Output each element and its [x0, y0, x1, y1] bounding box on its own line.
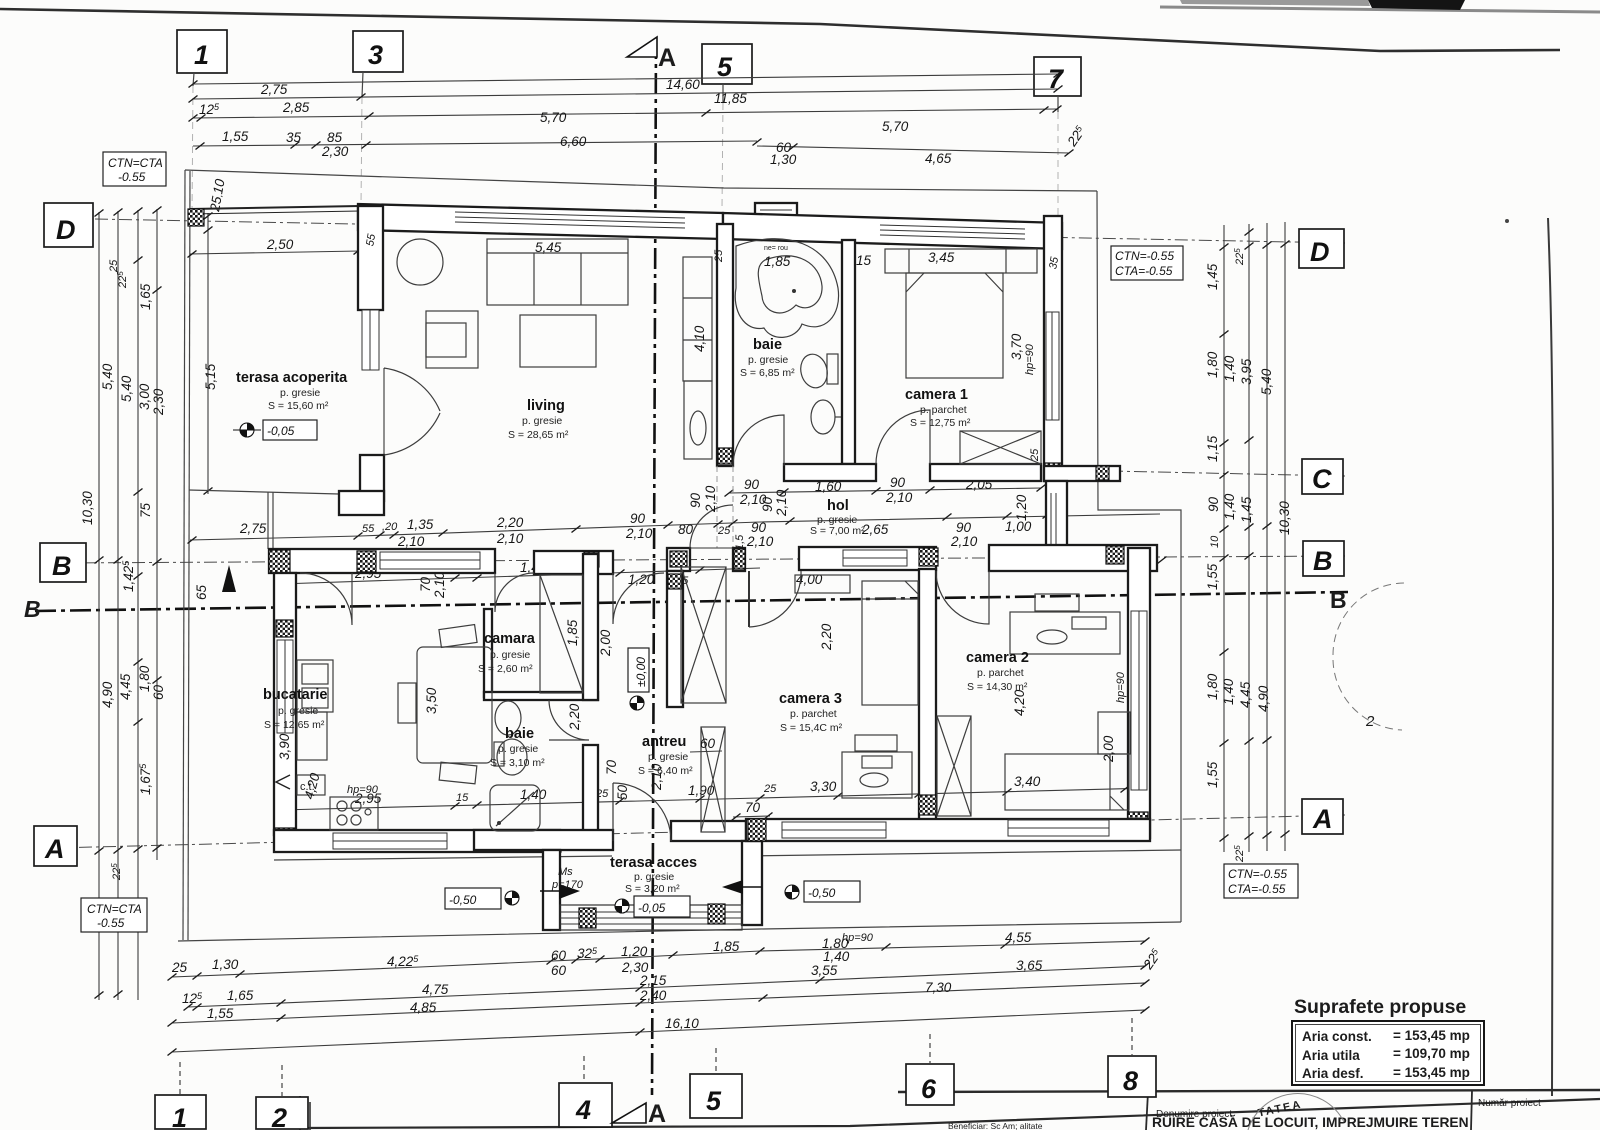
- svg-text:3,65: 3,65: [1016, 958, 1043, 973]
- page right edge line: [1548, 218, 1553, 1096]
- svg-text:S = 6,40 m²: S = 6,40 m²: [638, 765, 693, 777]
- svg-text:1: 1: [194, 40, 209, 70]
- svg-text:25: 25: [171, 960, 188, 975]
- svg-text:5,40: 5,40: [119, 375, 134, 402]
- svg-text:4,45: 4,45: [1238, 681, 1253, 708]
- baie toilet: [797, 351, 830, 390]
- window in north wall living: [455, 212, 685, 218]
- svg-text:C: C: [1312, 464, 1332, 494]
- svg-text:2: 2: [1365, 713, 1375, 730]
- elevation marker left -0,50: [445, 888, 501, 909]
- svg-text:3,45: 3,45: [928, 250, 955, 265]
- top chain row3 line 12.5 / 2,85 / 5,70 / 5,70 / 22.5: [193, 109, 1057, 118]
- top chain row2 line 2,75 / 11,85: [193, 89, 1058, 99]
- section line A-A vertical: [652, 38, 656, 1095]
- south window camera3: [782, 822, 886, 838]
- camera2 door: [936, 571, 989, 624]
- column hatch living NE / baie W: [718, 226, 733, 241]
- svg-text:1,45: 1,45: [1239, 496, 1254, 523]
- camera2 wardrobe X: [937, 716, 971, 816]
- svg-text:90: 90: [630, 511, 646, 526]
- svg-text:10,30: 10,30: [80, 491, 95, 525]
- svg-text:= 153,45 mp: = 153,45 mp: [1393, 1028, 1470, 1043]
- svg-text:2,10: 2,10: [774, 489, 789, 517]
- svg-text:4,55: 4,55: [1005, 930, 1032, 945]
- door 80 living side: [690, 505, 733, 548]
- svg-text:D: D: [56, 215, 76, 245]
- bubble D right: [1299, 229, 1344, 268]
- svg-text:60: 60: [551, 963, 567, 978]
- svg-text:Aria desf.: Aria desf.: [1302, 1066, 1364, 1081]
- svg-text:Suprafete propuse: Suprafete propuse: [1294, 996, 1466, 1018]
- svg-text:3,30: 3,30: [810, 779, 837, 794]
- svg-text:living: living: [527, 398, 565, 414]
- antreu west wall lower: [583, 745, 598, 835]
- svg-text:7,30: 7,30: [925, 980, 952, 995]
- svg-text:1,30: 1,30: [212, 957, 239, 972]
- svg-text:5,70: 5,70: [882, 119, 909, 134]
- svg-text:ne= rou: ne= rou: [764, 245, 788, 252]
- svg-text:1,85: 1,85: [713, 939, 740, 954]
- svg-text:±0,00: ±0,00: [634, 657, 648, 687]
- svg-text:A: A: [1312, 804, 1333, 834]
- bottom chain row1: [172, 941, 1145, 977]
- svg-text:16,10: 16,10: [665, 1016, 699, 1031]
- bubble 1 bottom: [155, 1095, 206, 1129]
- svg-text:90: 90: [760, 496, 775, 512]
- svg-text:5,15: 5,15: [203, 363, 218, 390]
- antreu entry door: [613, 573, 664, 624]
- camara shelf: [540, 575, 583, 693]
- bubble D left: [44, 203, 93, 247]
- svg-text:-0.55: -0.55: [118, 170, 146, 184]
- eave line below bucatarie: [274, 856, 612, 860]
- bottom-left bracket mark: [300, 1096, 310, 1130]
- svg-text:CTN=CTA: CTN=CTA: [108, 156, 163, 170]
- svg-text:2,40: 2,40: [639, 988, 667, 1003]
- svg-text:RUIRE CASĂ DE LOCUIT, IMPREJMU: RUIRE CASĂ DE LOCUIT, IMPREJMUIRE TEREN: [1152, 1114, 1469, 1130]
- svg-text:p. parchet: p. parchet: [977, 667, 1024, 679]
- elevation marker terasa: [240, 423, 254, 437]
- west wall living upper: [358, 206, 383, 310]
- svg-text:1,85: 1,85: [764, 254, 791, 269]
- bucatarie table: [417, 647, 492, 763]
- svg-text:2,00: 2,00: [1101, 735, 1116, 763]
- NE jog wall horizontal: [1044, 466, 1120, 481]
- svg-text:4: 4: [575, 1095, 591, 1125]
- svg-text:1: 1: [172, 1103, 187, 1130]
- svg-text:antreu: antreu: [642, 734, 686, 750]
- top chain row4: [193, 141, 757, 146]
- camera1 east wall: [1044, 216, 1062, 481]
- svg-text:Aria utila: Aria utila: [1302, 1048, 1360, 1063]
- section line B-B horizontal: [35, 592, 1348, 611]
- wall stub living SW: [339, 491, 384, 515]
- grid axis C dashed right: [1062, 470, 1345, 476]
- bucatarie south wall: [274, 830, 560, 852]
- svg-text:A: A: [658, 44, 676, 72]
- bubble A right: [1302, 799, 1343, 834]
- svg-text:baie: baie: [505, 726, 534, 742]
- column hatch bucatarie SW: [275, 828, 295, 852]
- svg-text:2,10: 2,10: [432, 571, 447, 599]
- living-hol opening dashed: [716, 466, 718, 548]
- svg-text:25: 25: [763, 783, 777, 795]
- north wall baie-camera1: [723, 213, 1062, 249]
- svg-text:p. parchet: p. parchet: [920, 404, 967, 416]
- svg-text:S = 2,60 m²: S = 2,60 m²: [478, 663, 533, 675]
- svg-text:2,30: 2,30: [321, 144, 349, 159]
- svg-text:D: D: [1310, 237, 1330, 267]
- svg-text:CTN=-0.55: CTN=-0.55: [1115, 249, 1174, 263]
- svg-text:2,30: 2,30: [151, 388, 166, 416]
- svg-text:1,40: 1,40: [1222, 493, 1237, 520]
- svg-text:80: 80: [678, 522, 694, 537]
- svg-text:1,55: 1,55: [1205, 761, 1220, 788]
- baie corner tub: [735, 239, 838, 338]
- svg-text:1,65: 1,65: [138, 283, 153, 310]
- svg-text:1,55: 1,55: [222, 129, 249, 144]
- svg-text:4,90: 4,90: [1256, 685, 1271, 712]
- baie top door: [733, 415, 784, 466]
- camera3 desk: [842, 752, 912, 798]
- svg-text:S = 12,75 m²: S = 12,75 m²: [910, 417, 971, 429]
- bubble B right: [1303, 541, 1344, 576]
- baie low south wall piece: [474, 830, 613, 850]
- NE jog wall vertical: [1046, 481, 1067, 551]
- svg-text:CTN=CTA: CTN=CTA: [87, 902, 142, 916]
- eave outline top: [185, 170, 1097, 191]
- svg-text:S = 3,10 m²: S = 3,10 m²: [490, 757, 545, 769]
- svg-text:4,45: 4,45: [118, 673, 133, 700]
- bucatarie sink unit: [297, 660, 333, 712]
- svg-text:S = 7,00 m²: S = 7,00 m²: [810, 525, 865, 537]
- svg-text:,20: ,20: [382, 521, 398, 533]
- svg-text:CTN=-0.55: CTN=-0.55: [1228, 867, 1287, 881]
- svg-text:1,40: 1,40: [520, 787, 547, 802]
- baie sink: [811, 400, 835, 434]
- camera2 east wall: [1128, 548, 1150, 838]
- svg-text:terasa acces: terasa acces: [610, 855, 697, 871]
- svg-text:11,85: 11,85: [714, 91, 747, 106]
- svg-text:3,40: 3,40: [1014, 774, 1041, 789]
- svg-text:p. gresie: p. gresie: [490, 649, 530, 661]
- bubble 4 bottom: [559, 1083, 612, 1127]
- svg-text:1,80: 1,80: [137, 665, 152, 692]
- svg-text:6,60: 6,60: [560, 134, 587, 149]
- svg-text:Număr proiect: Număr proiect: [1478, 1098, 1541, 1109]
- svg-text:p. gresie: p. gresie: [522, 415, 562, 427]
- svg-text:1,20: 1,20: [621, 944, 648, 959]
- elevation marker antreu 0.00: [630, 696, 644, 710]
- svg-text:75: 75: [138, 502, 153, 518]
- svg-text:3,95: 3,95: [1239, 358, 1254, 385]
- svg-text:5,40: 5,40: [1259, 368, 1274, 395]
- camera2 bed headboard: [1098, 712, 1130, 754]
- svg-text:1,15: 1,15: [1205, 435, 1220, 462]
- dim column 25,10 left of terasa: [207, 213, 209, 494]
- svg-text:p. gresie: p. gresie: [498, 743, 538, 755]
- svg-text:Ms: Ms: [558, 866, 573, 878]
- svg-text:S = 12,65 m²: S = 12,65 m²: [264, 719, 325, 731]
- svg-text:4,90: 4,90: [100, 681, 115, 708]
- svg-text:1,85: 1,85: [565, 619, 580, 646]
- left chain col lines: [98, 212, 100, 1000]
- dim 2,75 mid-left + interior chain under B wall: [190, 514, 1160, 540]
- svg-text:1,40: 1,40: [1222, 355, 1237, 382]
- svg-text:1,5: 1,5: [734, 534, 746, 550]
- svg-text:90: 90: [688, 492, 703, 508]
- terasa acces steps: [560, 905, 742, 930]
- antreu west wall upper: [583, 554, 598, 700]
- north wall living: [358, 204, 723, 239]
- svg-text:baie: baie: [753, 337, 782, 353]
- svg-text:2,00: 2,00: [598, 629, 613, 657]
- svg-text:1,45: 1,45: [1205, 263, 1220, 290]
- plot boundary left double line: [183, 170, 185, 940]
- bubble 1 top: [177, 30, 227, 73]
- page top edge line: [0, 9, 1560, 51]
- svg-text:60: 60: [551, 948, 567, 963]
- svg-text:4,10: 4,10: [692, 325, 707, 352]
- svg-text:65: 65: [194, 584, 209, 600]
- svg-text:2,10: 2,10: [703, 485, 718, 513]
- eave outline right upper: [1097, 191, 1181, 922]
- camera3 west wall: [667, 571, 683, 707]
- svg-text:8: 8: [1123, 1066, 1138, 1096]
- page top-right smudge band: [1160, 7, 1600, 12]
- camera3 bed: [862, 581, 918, 705]
- right chain col lines: [1223, 225, 1225, 852]
- title block horizontal line: [898, 1090, 1600, 1092]
- svg-text:p. gresie: p. gresie: [278, 705, 318, 717]
- access arrow right-pointing: [559, 884, 580, 899]
- baie low door: [549, 700, 589, 740]
- svg-text:1,40: 1,40: [823, 949, 850, 964]
- svg-text:70: 70: [745, 800, 761, 815]
- camara west wall: [484, 609, 492, 697]
- svg-text:1,30: 1,30: [770, 152, 797, 167]
- svg-text:90: 90: [1206, 496, 1221, 512]
- camera1 bed: [906, 273, 1003, 378]
- svg-text:14,60: 14,60: [666, 77, 700, 92]
- north-ish arrow at left B wall: [222, 565, 236, 592]
- svg-text:hp=90: hp=90: [1024, 343, 1036, 375]
- svg-text:S = 3,20 m²: S = 3,20 m²: [625, 883, 680, 895]
- svg-text:3: 3: [368, 40, 383, 70]
- svg-text:1,80: 1,80: [1205, 673, 1220, 700]
- svg-text:1,55: 1,55: [1205, 563, 1220, 590]
- svg-text:85: 85: [327, 130, 343, 145]
- svg-text:3,90: 3,90: [277, 733, 292, 760]
- CTN box right-bottom: [1224, 864, 1298, 898]
- svg-text:3,50: 3,50: [424, 687, 439, 714]
- terasa acces step columns: [579, 908, 596, 928]
- bucatarie west window: [277, 640, 293, 733]
- south wall camera3-camera2: [746, 819, 1150, 841]
- svg-text:3,55: 3,55: [811, 963, 838, 978]
- south window camera2: [1008, 820, 1109, 836]
- svg-text:= 109,70 mp: = 109,70 mp: [1393, 1046, 1470, 1061]
- column hatch bucatarie S mid: [544, 830, 561, 852]
- svg-text:camara: camara: [484, 631, 536, 647]
- B wall pier: [733, 548, 745, 571]
- camera2 desk: [1010, 612, 1120, 654]
- camera3 shelf top: [795, 575, 850, 593]
- svg-text:25: 25: [1029, 448, 1041, 462]
- svg-text:2,10: 2,10: [885, 490, 913, 505]
- svg-text:6: 6: [921, 1074, 937, 1104]
- elevation marker right -0,50: [785, 885, 799, 899]
- svg-text:Beneficiar: Sc Am; alitate: Beneficiar: Sc Am; alitate: [948, 1121, 1043, 1130]
- svg-text:A: A: [648, 1100, 666, 1128]
- column hatch camera2 SE: [1128, 812, 1148, 836]
- B wall segment 5: [989, 545, 1157, 571]
- CTN=CTA box top-left: [103, 152, 166, 186]
- section flag A bottom: [612, 1103, 646, 1123]
- camera2 east window: [1131, 611, 1147, 790]
- svg-text:Aria const.: Aria const.: [1302, 1029, 1372, 1044]
- svg-text:5,40: 5,40: [100, 363, 115, 390]
- terasa south edge line: [189, 490, 339, 494]
- elevation marker terasa acces: [615, 899, 629, 913]
- page top-right black blob: [1368, 0, 1465, 10]
- B wall window 1: [380, 552, 480, 569]
- svg-text:10: 10: [1209, 535, 1221, 548]
- svg-text:-0,05: -0,05: [267, 424, 295, 438]
- svg-text:= 153,45 mp: = 153,45 mp: [1393, 1065, 1470, 1080]
- svg-text:90: 90: [744, 477, 760, 492]
- svg-text:2,20: 2,20: [496, 515, 524, 530]
- camara-baie partition horizontal: [484, 692, 598, 700]
- svg-text:2,20: 2,20: [819, 623, 834, 651]
- svg-text:15: 15: [456, 792, 469, 804]
- antreu south door: [613, 783, 671, 841]
- grid axis A dashed: [55, 815, 1345, 848]
- CTN box right-top: [1111, 246, 1183, 280]
- svg-text:4,85: 4,85: [410, 1000, 437, 1015]
- svg-text:-0.55: -0.55: [97, 916, 125, 930]
- svg-text:S = 15,4C m²: S = 15,4C m²: [780, 722, 843, 734]
- title block vertical divider 2: [1471, 1091, 1472, 1130]
- svg-text:5,70: 5,70: [540, 110, 567, 125]
- svg-text:1,20: 1,20: [1014, 494, 1029, 521]
- svg-text:hp=90: hp=90: [842, 932, 874, 944]
- svg-text:25: 25: [108, 259, 120, 273]
- west wall living lower stub: [360, 455, 384, 501]
- camera3 door: [748, 571, 750, 627]
- bubble 8 bottom: [1108, 1056, 1156, 1097]
- svg-text:25: 25: [717, 525, 731, 537]
- svg-text:S = 15,60 m²: S = 15,60 m²: [268, 400, 329, 412]
- svg-text:90: 90: [956, 520, 972, 535]
- svg-text:3,00: 3,00: [137, 383, 152, 410]
- svg-text:p. gresie: p. gresie: [648, 751, 688, 763]
- svg-text:S = 6,85 m²: S = 6,85 m²: [740, 367, 795, 379]
- open arrow bucatarie: [276, 775, 290, 789]
- svg-text:-0,05: -0,05: [638, 901, 666, 915]
- living tv cabinet: [683, 257, 712, 381]
- bucatarie door: [300, 573, 352, 625]
- svg-text:1,40: 1,40: [1221, 678, 1236, 705]
- antreu wardrobe X small: [701, 727, 725, 832]
- svg-text:55: 55: [362, 523, 375, 535]
- svg-text:camera 2: camera 2: [966, 650, 1029, 666]
- hol north wall segment baie side: [784, 464, 876, 481]
- svg-text:camera 1: camera 1: [905, 387, 968, 403]
- svg-text:25: 25: [713, 249, 725, 263]
- antreu wardrobe X tall: [681, 567, 726, 703]
- column hatch partition S: [919, 795, 936, 815]
- living west double door arcs: [384, 368, 440, 411]
- svg-text:2,50: 2,50: [266, 237, 294, 252]
- bottom chain row2: [188, 966, 1145, 1007]
- Suprafete table box: [1292, 1021, 1484, 1085]
- bubble A left: [34, 826, 77, 866]
- bubble 6 bottom: [906, 1064, 954, 1105]
- svg-text:2,10: 2,10: [496, 531, 524, 546]
- baie low shower: [490, 785, 540, 831]
- svg-text:90: 90: [890, 475, 906, 490]
- CTN=CTA box bottom-left: [81, 898, 147, 932]
- camera1 wardrobe X: [960, 431, 1041, 464]
- svg-text:2,10: 2,10: [397, 534, 425, 549]
- svg-text:hp=90: hp=90: [347, 784, 379, 796]
- svg-text:2,75: 2,75: [260, 82, 288, 97]
- camera1 east window: [1046, 312, 1059, 420]
- B wall segment 2: [534, 551, 613, 574]
- svg-text:3,70: 3,70: [1009, 333, 1024, 360]
- column hatch living NW: [360, 208, 380, 230]
- bubble B left: [40, 543, 86, 582]
- svg-text:2,75: 2,75: [239, 521, 267, 536]
- svg-text:S = 28,65 m²: S = 28,65 m²: [508, 429, 569, 441]
- svg-text:1,35: 1,35: [407, 517, 434, 532]
- camara door: [495, 573, 534, 612]
- terasa top edge wall line: [190, 206, 360, 209]
- svg-text:p. parchet: p. parchet: [790, 708, 837, 720]
- camera3-camera2 partition: [919, 569, 936, 820]
- bottom chain row4: [172, 1010, 1145, 1052]
- svg-text:CTA=-0.55: CTA=-0.55: [1228, 882, 1286, 896]
- hol dim chain: [729, 488, 1041, 493]
- baie east wall partition: [842, 240, 855, 464]
- svg-text:-0,50: -0,50: [808, 886, 836, 900]
- top chain row1 line 14,60: [193, 74, 1058, 84]
- svg-text:1,55: 1,55: [207, 1006, 234, 1021]
- bubble 2 bottom: [256, 1097, 308, 1129]
- svg-text:2,10: 2,10: [625, 526, 653, 541]
- terasa acces west band: [543, 850, 560, 930]
- B wall segment 3 pier: [667, 548, 690, 571]
- svg-text:p=170: p=170: [551, 879, 584, 891]
- eave line below camera3/2: [746, 850, 1181, 856]
- svg-text:2,20: 2,20: [567, 703, 582, 731]
- grid axis D horizontal dashed: [95, 219, 1345, 243]
- living armchair: [426, 311, 478, 368]
- svg-text:CTA=-0.55: CTA=-0.55: [1115, 264, 1173, 278]
- svg-text:2,10: 2,10: [649, 763, 664, 791]
- svg-text:B: B: [24, 596, 41, 622]
- svg-text:p. gresie: p. gresie: [280, 387, 320, 399]
- column hatch camera1 NE: [1045, 229, 1061, 246]
- svg-text:B: B: [52, 551, 72, 581]
- svg-text:70: 70: [418, 576, 433, 592]
- terasa acces east band: [742, 841, 762, 925]
- baie low toilet: [497, 739, 527, 775]
- inner bottom dim chain rooms: [280, 788, 1150, 810]
- stamp arc text: [1257, 1098, 1304, 1119]
